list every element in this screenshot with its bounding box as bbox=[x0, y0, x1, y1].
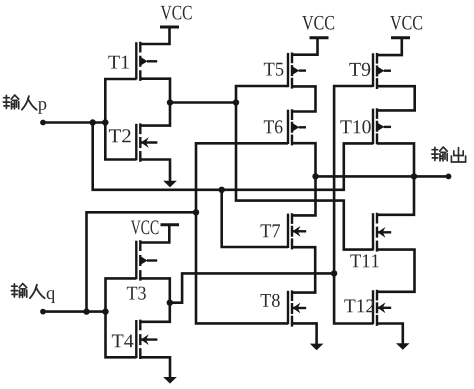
VCC rail 4 (bar) bbox=[161, 223, 180, 226]
transistor T7 bbox=[288, 213, 306, 249]
VCC rail 1 (bar) bbox=[160, 26, 179, 29]
ground under T8 bbox=[310, 344, 324, 351]
wire input q bbox=[43, 310, 106, 313]
label T2 bbox=[109, 129, 131, 142]
label VCC 3 bbox=[390, 16, 422, 30]
label VCC 1 bbox=[161, 6, 192, 20]
ground under T12 bbox=[396, 343, 410, 350]
label input q bbox=[11, 284, 55, 303]
node dot output right bbox=[411, 173, 417, 179]
wire T12 source to ground bbox=[377, 324, 403, 344]
label T1 bbox=[108, 56, 128, 69]
ground under T2 bbox=[163, 181, 177, 188]
wire T11 source to T12 drain bbox=[377, 250, 415, 292]
wire T3 source to T4 drain bbox=[140, 278, 170, 321]
label T6 bbox=[264, 120, 283, 133]
transistor T3 bbox=[136, 240, 157, 280]
VCC rail 2 (bar) bbox=[310, 36, 329, 39]
label T9 bbox=[349, 63, 370, 76]
transistor T10 bbox=[373, 108, 391, 144]
wire T5 drain to VCC2 bbox=[292, 38, 318, 55]
wire T6 gate to T8 gate vertical bbox=[196, 143, 288, 323]
label T4 bbox=[112, 334, 134, 347]
label T10 bbox=[340, 120, 370, 133]
wire T9 source to T10 drain bbox=[377, 86, 415, 110]
transistor T2 bbox=[136, 123, 157, 161]
node dot p branch bbox=[90, 119, 96, 125]
wire T2 source to ground bbox=[140, 160, 170, 182]
transistor T11 bbox=[373, 213, 391, 252]
output terminal bbox=[446, 174, 452, 180]
label output bbox=[432, 147, 466, 162]
wire T3 gate + T4 gate to input q bbox=[106, 278, 137, 357]
label T8 bbox=[261, 294, 280, 307]
input q terminal bbox=[40, 309, 46, 315]
node dot q branch bbox=[83, 308, 89, 314]
label VCC 2 bbox=[302, 16, 334, 30]
label T11 bbox=[350, 254, 378, 267]
wire q line up to T6 T8 gates bbox=[87, 212, 197, 311]
node dot qbar tap bbox=[331, 270, 337, 276]
wire T3T4 node to qbar line bbox=[170, 273, 334, 302]
wire T4 source to ground bbox=[140, 357, 170, 377]
node dot pbar T5 branch bbox=[233, 99, 239, 105]
input p terminal bbox=[40, 120, 46, 126]
wire T1 drain to VCC1 bbox=[140, 27, 169, 44]
transistor T6 bbox=[288, 109, 306, 145]
node dot q tap bbox=[193, 209, 199, 215]
label T12 bbox=[344, 299, 374, 312]
transistor T9 bbox=[373, 53, 391, 89]
node dot T3T4 bbox=[167, 300, 173, 306]
wire p line to T10 gate bbox=[93, 123, 373, 190]
label T7 bbox=[261, 224, 281, 237]
node dot q-gates bbox=[102, 308, 108, 314]
transistor T5 bbox=[288, 53, 306, 89]
label input p bbox=[3, 95, 46, 114]
node dot output left bbox=[312, 173, 318, 179]
wire T1 source to T2 drain bbox=[140, 79, 170, 126]
wire T3 drain to VCC4 bbox=[140, 225, 169, 243]
transistor T4 bbox=[136, 320, 157, 359]
VCC rail 3 (bar) bbox=[391, 36, 410, 39]
wire p branch to T7 gate bbox=[222, 190, 288, 247]
wire input p bbox=[43, 121, 105, 124]
label T3 bbox=[127, 287, 146, 300]
wire T8 source to ground bbox=[292, 323, 317, 344]
wire T6 source through output node to T7 drain bbox=[292, 143, 316, 215]
wire T1 gate + T2 gate to node bbox=[105, 79, 136, 160]
node dot pbar bbox=[167, 99, 173, 105]
wire T9 drain to VCC3 bbox=[377, 38, 402, 55]
output wire bbox=[316, 175, 449, 178]
label T5 bbox=[264, 63, 284, 76]
transistor T8 bbox=[288, 290, 306, 326]
ground under T4 bbox=[163, 377, 177, 384]
transistor T1 bbox=[136, 42, 157, 81]
node dot p to T7 bbox=[219, 187, 225, 193]
wire T7 source to T8 drain bbox=[292, 247, 315, 292]
wire T10 source through output node to T11 drain bbox=[377, 143, 414, 214]
node dot p-gates bbox=[102, 119, 108, 125]
wire T1T2 node to T5 gate and T11 gate (pbar) bbox=[170, 86, 373, 250]
wire T5 source to T6 drain bbox=[292, 86, 316, 111]
wire T9 gate to T12 gate vertical (qbar) bbox=[334, 86, 373, 324]
transistor T12 bbox=[373, 290, 391, 326]
label VCC 4 bbox=[131, 220, 159, 234]
